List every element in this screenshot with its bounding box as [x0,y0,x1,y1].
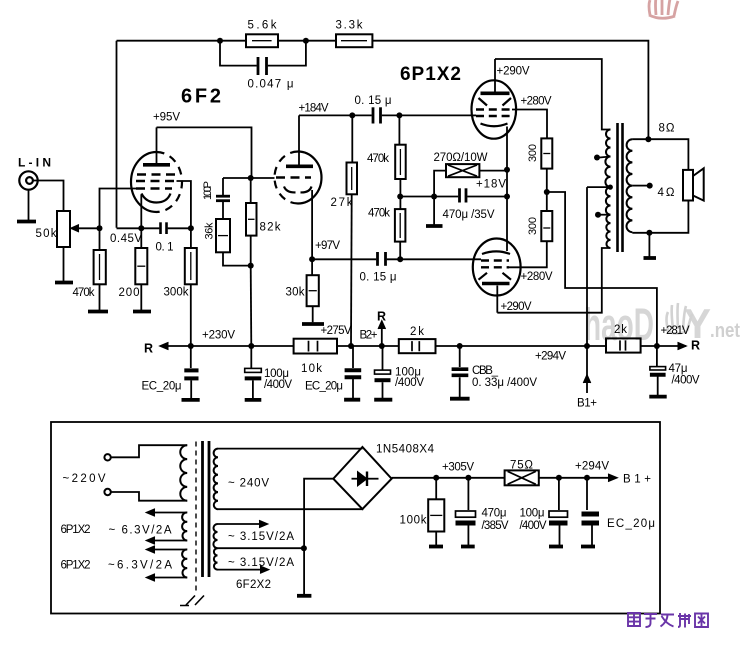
potentiometer VR1 50k [57,211,70,247]
tube V1a grids [137,173,176,175]
capacitor C14 100u/400V psu [558,478,560,510]
svg-text:8Ω: 8Ω [659,123,675,135]
heater winding W5 3.15V [214,548,218,569]
HV winding W3 240V [214,449,218,510]
node +18V junction upper [504,167,510,173]
tube V1b plate [286,165,313,169]
tube V1b grid [276,176,311,178]
svg-text:+95V: +95V [153,112,180,124]
svg-text:+305V: +305V [442,462,474,474]
ground (C10) [374,398,392,402]
svg-text:+18V: +18V [476,179,506,191]
svg-text:/400V: /400V [264,379,292,391]
svg-text:470μ: 470μ [482,508,507,520]
capacitor C6 0.047u [220,41,257,66]
node B1+ junction [584,343,590,349]
svg-text:R: R [691,339,700,353]
node 8 ohm tap [645,136,651,142]
resistor R18 75ohm [505,470,539,485]
svg-text:+280V: +280V [521,96,552,108]
tube V3 beam plates [479,98,512,106]
svg-text:~220V: ~220V [63,473,106,485]
watermark haoDIY.net [584,299,740,350]
svg-text:2k: 2k [614,324,627,336]
svg-text:4Ω: 4Ω [658,187,675,199]
tube V4 screen grid [481,266,509,268]
resistor R5 82k [246,203,257,236]
resistor R17 2k right [606,338,641,352]
svg-text:30k: 30k [286,287,305,299]
svg-text:50k: 50k [36,228,57,240]
node +97V junction [309,256,315,262]
capacitor C1 0.1 [159,222,162,234]
svg-text:100k: 100k [400,515,427,527]
node V4 grid junction [397,256,403,262]
wire +184V rail [299,114,372,116]
ground (pot) [55,281,73,285]
wire +281V node [641,345,686,347]
heater winding W4 3.15V [213,524,217,548]
tube V4 plate [482,282,510,286]
node 470u junction [465,475,471,481]
wire screen riser [177,181,191,228]
resistor R8 270ohm 10W [434,171,446,197]
ground (screen hatches) [180,596,204,606]
wire secondary top / 8 ohm [632,139,688,170]
ground (bias network) [433,197,435,225]
watermark hand (top corner, red) [649,0,678,18]
wire V4 plate lead [496,286,498,313]
wire +97V rail [312,258,376,260]
node bias mid junction [397,194,403,200]
svg-text:470k: 470k [73,287,95,299]
wire feedback to 8ohm tap [372,41,648,140]
resistor R14 3.3k [336,34,372,47]
wire pot bottom to ground [63,247,65,281]
resistor R12 30k [311,259,313,275]
wire bridge minus to filament CT and ground [304,479,333,595]
OPT core [616,123,619,252]
wire B1+ DC rail [392,477,608,479]
tube V1a plate [143,163,170,167]
wire secondary bottom [632,201,688,233]
svg-text:/385V: /385V [482,520,509,532]
wire W4/W5 centre tap [218,547,304,549]
connector J1 L-IN jack [19,171,37,189]
wire feedback top run [117,40,247,42]
wire cathode lead [140,195,142,229]
svg-text:EC_20μ: EC_20μ [305,381,343,393]
OPT primary tap 3 (floating) [601,214,611,216]
wire wiper arrow shaft [72,227,100,229]
tube V1a cathode [142,194,171,203]
OPT primary tap 1 (floating) [600,157,611,158]
wire cathode rail segment [117,227,160,229]
resistor R10 300 lower [546,192,548,211]
node A grid junction [97,225,103,231]
svg-text:6P1X2: 6P1X2 [400,64,461,85]
wire jack to ground [28,190,30,221]
tube V1b cathode [284,187,312,193]
wire W5 bottom lead arrow right [218,569,261,571]
wire V1b grid [223,177,275,179]
tube V4 beam plates [479,273,512,280]
resistor R3 300k [190,228,192,248]
svg-text:47μ: 47μ [669,363,688,375]
capacitor C4 470u/35V [458,188,461,202]
svg-text:300: 300 [527,144,539,162]
resistor R6 27k [351,115,353,162]
tube V1a 6F2 pentode envelope [131,152,157,212]
heater winding W1 6.3V [182,512,187,540]
speaker LS1 [683,170,693,201]
capacitor C5 0.15u lower [376,252,379,266]
resistor R2 200 [140,228,142,248]
svg-text:CBB_: CBB_ [472,365,499,377]
tube V4 6P1X2 lower envelope [473,239,521,296]
wire W2 leads with arrows [148,549,187,551]
svg-text:+97V: +97V [315,240,340,252]
svg-text:/400V: /400V [395,377,424,389]
arrowhead B1+ out [608,474,618,482]
node screen mid junction [544,189,550,195]
bridge rectifier D1-D4 [333,447,391,509]
svg-text:27k: 27k [331,197,353,209]
wire W3 top to bridge [218,448,362,450]
ground (C8) [245,398,262,402]
ground (30k) [302,322,324,326]
resistor R15 10k [294,339,337,354]
tube V4 cathode [482,251,510,254]
svg-text:100P: 100P [202,181,214,200]
ground (C13) [461,545,475,549]
svg-text:100μ: 100μ [520,508,545,520]
wire V1b cathode lead [311,190,313,259]
capacitor C10 100u/400V mid [382,346,384,370]
capacitor C11 CBB 0.33u/400V [459,346,461,367]
svg-text:1N5408X4: 1N5408X4 [376,444,435,456]
node 5.6k left [217,38,223,44]
node +230V EC cap junction [188,343,194,349]
heater winding W2 6.3V [182,549,187,577]
resistor R1 470k input [99,228,101,250]
svg-text:82k: 82k [260,222,281,234]
tube V1b 6F2 triode envelope [298,152,322,204]
ground (secondary) [644,256,657,260]
svg-text:300k: 300k [164,287,189,299]
node EC junction [584,475,590,481]
svg-text:+184V: +184V [299,103,329,115]
node +281V junction [654,343,660,349]
svg-text:R: R [144,342,153,356]
arrow B1+ up feed [586,346,588,393]
wiper arrowhead [71,225,80,233]
terminal AC neutral [104,489,110,495]
capacitor C12 47u/400V [656,346,658,366]
ground (jack) [17,220,36,224]
svg-text:B1+: B1+ [577,398,597,410]
ground (C7) [182,398,200,402]
node secondary ground junction [646,230,652,236]
wire V3 screen to 300 [512,110,547,139]
capacitor C8 100u/400V left [250,346,252,368]
wire AC live to primary [111,445,187,457]
node B2+ 27k junction [348,343,354,349]
ground (C9) [344,398,360,402]
svg-text:470μ /35V: 470μ /35V [443,209,495,221]
svg-text:+290V: +290V [497,66,530,78]
svg-text:200: 200 [119,287,140,299]
node filament CT junction [301,545,307,551]
svg-text:+294V: +294V [535,351,566,363]
watermark hand (middle) [667,303,693,334]
site name (CJK simulated) [628,613,708,628]
capacitor C15 EC_20u psu [586,478,588,510]
node 100u junction [556,475,562,481]
svg-text:/400V: /400V [672,375,700,387]
svg-text:~ 3.15V/2A: ~ 3.15V/2A [228,531,294,543]
capacitor C13 470u/385V [467,478,469,510]
transformer T1 screen (dashed) [195,442,197,594]
resistor R16 2k left [399,339,436,353]
resistor R9 300 upper [541,138,552,168]
capacitor C2 100P [222,178,224,195]
OPT primary centre tap [608,185,613,190]
OPT primary winding [605,130,610,249]
svg-text:B2+: B2+ [360,330,378,342]
ground (C12) [649,395,666,399]
capacitor C9 EC_20u mid [352,346,354,368]
node 3.3k left [303,38,309,44]
node +230V 100u junction [248,343,254,349]
PSU enclosure box [51,422,660,614]
node 270 ohm left junction [431,194,437,200]
wire grid riser [100,189,138,229]
svg-text:6F2X2: 6F2X2 [236,579,271,591]
wire to +230V rail [250,266,253,346]
svg-text:5.6k: 5.6k [248,20,277,32]
svg-text:B1+: B1+ [623,474,651,486]
svg-text:~ 240V: ~ 240V [228,478,269,490]
ground (C11) [450,397,470,401]
wire bias node to cap [400,196,434,198]
svg-text:36k: 36k [204,222,216,240]
wire feedback drop to cathode rail [116,41,118,228]
svg-text:0.45V: 0.45V [110,233,142,245]
svg-text:0. 33μ /400V: 0. 33μ /400V [472,377,537,389]
svg-text:/400V: /400V [520,520,547,532]
ground (R2) [133,310,151,314]
resistor R11 470k lower [399,242,401,260]
node 0.15u junction [349,112,355,118]
svg-text:R: R [377,310,386,324]
svg-text:+280V: +280V [521,271,553,283]
node CBB junction [457,343,463,349]
svg-text:6F2: 6F2 [181,86,221,108]
wire cap to screen node [168,227,191,229]
svg-text:0.047 μ: 0.047 μ [248,79,294,91]
wire left R arrow / +230V rail [161,345,294,347]
ground (bridge minus) [297,594,311,598]
svg-text:+281V: +281V [661,325,690,337]
wire screen node jog to +281V [547,192,657,344]
svg-text:+290V: +290V [501,301,532,313]
svg-text:470k: 470k [367,153,389,165]
capacitor C7 EC_20u left [190,346,192,368]
OPT 4 ohm tap (floating) [632,185,647,187]
arrowhead R left [160,342,169,350]
svg-text:.net: .net [710,320,740,342]
svg-text:10k: 10k [301,363,322,375]
wire V3 plate to OPT top [495,59,611,130]
svg-text:0. 15 μ: 0. 15 μ [355,95,392,107]
resistor R13 5.6k [246,34,278,47]
tube V3 6P1X2 upper envelope [472,80,517,138]
node cap to cathode line [504,194,510,200]
svg-text:6P1X2: 6P1X2 [61,524,91,536]
transformer T1 core [201,441,204,577]
node 470k top junction [396,112,402,118]
ground (R1) [88,310,108,314]
OPT secondary winding [627,139,633,232]
resistor R19 100k [435,478,437,500]
wire W4 top lead arrow right [218,523,260,525]
tube V4 control grid [481,259,509,261]
wire V4 plate to OPT bottom [497,248,610,313]
svg-text:300: 300 [527,217,539,235]
tube V3 cathode [481,124,508,127]
tube V3 control grid [476,115,512,117]
svg-text:EC_20μ: EC_20μ [607,518,655,530]
node C screen junction [188,225,194,231]
wire W1 leads with arrows [148,512,187,514]
wire +95V plate to V1b grid [157,127,252,178]
arrowhead R right [678,342,687,350]
ground (C14) [549,545,563,549]
node B2+ R-up junction [379,343,385,349]
wire 2k to B1+ node [436,345,607,347]
wire centre tap to B1+ rail [586,187,588,346]
node F V1b grid junction [248,175,254,181]
svg-text:75Ω: 75Ω [510,460,533,472]
wire V3 g1 entry [472,114,476,116]
terminal AC live [104,454,110,460]
resistor R7 470k upper [398,115,400,144]
node B cathode junction [138,225,144,231]
arrow R up [381,322,383,347]
svg-text:+294V: +294V [575,461,609,473]
wire W3 bottom to bridge [218,508,362,510]
ground (100k) [429,545,443,549]
svg-text:EC_20μ: EC_20μ [142,381,182,393]
wire 10k to B2+ rail [337,345,399,347]
tube V3 plate [481,92,510,96]
resistor R4 36k [216,219,230,252]
svg-text:0. 15 μ: 0. 15 μ [360,272,397,284]
svg-text:6P1X2: 6P1X2 [61,560,91,572]
node G 82k bottom junction [248,263,254,269]
transformer T1 primary winding [180,445,187,501]
wire cathode link V3-V4 [506,127,508,252]
svg-text:270Ω/10W: 270Ω/10W [434,152,488,164]
capacitor C3 0.15u upper [372,107,375,123]
svg-text:+230V: +230V [202,330,235,342]
wire AC neutral to primary [111,492,187,501]
tube V3 screen grid [476,108,512,110]
svg-text:+275V: +275V [321,325,352,337]
svg-text:~ 3.15V/2A: ~ 3.15V/2A [228,557,294,569]
ground (C15) [581,545,595,549]
svg-text:470k: 470k [368,208,390,220]
svg-text:3.3k: 3.3k [336,20,363,32]
wire jack to pot top [33,181,64,212]
svg-text:0. 1: 0. 1 [156,242,174,254]
node 100k junction [433,475,439,481]
